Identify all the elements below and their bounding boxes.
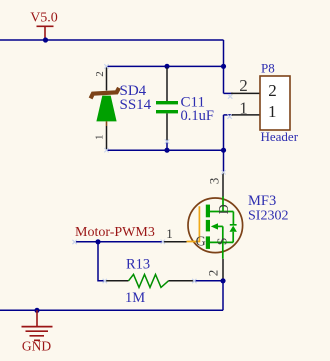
- svg-text:1: 1: [166, 226, 173, 241]
- capacitor C11 pin 2 line: [166, 113, 168, 140]
- svg-text:2: 2: [268, 81, 277, 100]
- pin number 2 (SD4): [94, 71, 106, 77]
- wire stub to header pin 1: [224, 114, 234, 116]
- capacitor C11 pin 1 line: [166, 68, 168, 102]
- power symbol V5.0: [30, 11, 58, 40]
- wire C11 bottom stub: [166, 140, 168, 150]
- resistor R13 zigzag: [129, 274, 169, 287]
- MF3 drain connection: [210, 197, 233, 212]
- net label Motor-PWM3: [75, 225, 155, 240]
- designator P8: [261, 61, 275, 76]
- transistor MF3 body circle: [188, 198, 243, 253]
- pin number 1 (SD4): [94, 135, 106, 141]
- header P8 display number 1: [268, 102, 277, 121]
- pin number 1 (MF3): [166, 226, 173, 241]
- MF3 pin name S: [216, 238, 231, 246]
- wire top rail V5.0: [0, 39, 224, 41]
- wire down to R13: [98, 242, 105, 281]
- value 1M: [125, 290, 145, 306]
- wire stub to header pin 2: [224, 92, 234, 94]
- svg-text:D: D: [217, 204, 232, 214]
- svg-text:1: 1: [268, 102, 277, 121]
- ground symbol: [22, 310, 53, 353]
- junction Motor-PWM3: [95, 239, 100, 244]
- svg-text:0.1uF: 0.1uF: [181, 108, 214, 124]
- svg-text:V5.0: V5.0: [30, 11, 58, 26]
- wire box bottom: [107, 149, 224, 151]
- junction C11 top: [164, 64, 169, 69]
- pin hotspot marks: [72, 64, 232, 283]
- MF3 gate line: [187, 206, 200, 241]
- capacitor C11 plates: [156, 101, 178, 113]
- svg-text:G: G: [196, 234, 206, 249]
- header P8 pin 1 line: [231, 114, 260, 116]
- wire R13 to source node: [194, 280, 223, 282]
- wire down to MOSFET drain: [223, 150, 225, 172]
- svg-text:1: 1: [94, 135, 106, 141]
- svg-text:GND: GND: [22, 339, 51, 354]
- svg-text:S: S: [216, 238, 231, 246]
- junction box bottom right: [221, 148, 226, 153]
- junction at V5.0 rail: [43, 37, 48, 42]
- header P8 pin 2 line: [231, 92, 260, 94]
- resistor R13 pin 1 line: [105, 280, 129, 282]
- junction source node: [220, 278, 225, 283]
- svg-text:SI2302: SI2302: [248, 209, 288, 224]
- MF3 pin name G: [196, 234, 206, 249]
- wire right column upper: [223, 40, 225, 93]
- junction C11 bottom: [164, 148, 169, 153]
- MF3 bulk electrode bar: [206, 220, 210, 232]
- svg-text:Motor-PWM3: Motor-PWM3: [75, 225, 155, 240]
- svg-text:1: 1: [239, 98, 248, 117]
- pin number 2 (MF3): [206, 270, 221, 277]
- label C11: [181, 95, 205, 111]
- MF3 body diode triangle: [230, 226, 237, 232]
- junction top right: [221, 64, 226, 69]
- svg-text:Header: Header: [261, 129, 299, 144]
- transistor MF3 gate pin line: [163, 241, 187, 243]
- svg-text:1M: 1M: [125, 290, 145, 306]
- wire box top (node V5 to diode/cap): [107, 65, 224, 67]
- designator R13: [126, 257, 150, 273]
- label Header: [261, 129, 299, 144]
- diode SD4 pin 1 line: [106, 126, 108, 150]
- MF3 body diode anode line: [232, 232, 234, 243]
- svg-text:2: 2: [239, 76, 248, 95]
- designator MF3: [248, 193, 276, 209]
- label SD4: [120, 83, 147, 99]
- header P8 display number 2: [268, 81, 277, 100]
- MF3 body diode cathode line: [230, 212, 237, 225]
- svg-text:SS14: SS14: [120, 97, 152, 113]
- MF3 pin name D: [217, 204, 232, 214]
- wire Motor-PWM3: [76, 241, 163, 243]
- diode SD4 anode stub: [106, 121, 108, 126]
- label 0.1uF: [181, 108, 214, 124]
- wire header pin1 down to box bottom: [223, 115, 225, 150]
- MF3 source electrode bar: [206, 236, 210, 249]
- label SS14: [120, 97, 152, 113]
- resistor R13 pin 2 line: [169, 280, 195, 282]
- svg-text:R13: R13: [126, 257, 150, 273]
- svg-text:2: 2: [94, 71, 106, 77]
- junction GND: [34, 308, 39, 313]
- svg-text:P8: P8: [261, 61, 275, 76]
- svg-text:3: 3: [207, 178, 222, 185]
- wire bottom rail GND: [0, 309, 223, 311]
- diode SD4 cathode bar: [91, 88, 119, 99]
- pin number 1 (P8): [239, 98, 248, 117]
- diode SD4 pin 2 line: [106, 66, 108, 90]
- transistor MF3 pin 3 line: [222, 173, 224, 198]
- MF3 drain electrode bar: [206, 205, 210, 218]
- pin number 2 (P8): [239, 76, 248, 95]
- transistor MF3 pin 2 line: [222, 259, 224, 281]
- pin number 3 (MF3): [207, 178, 222, 185]
- header P8 body: [260, 76, 290, 130]
- svg-text:MF3: MF3: [248, 193, 276, 209]
- label SI2302: [248, 209, 288, 224]
- MF3 source connection: [210, 226, 233, 258]
- MF3 bulk arrow: [211, 223, 223, 229]
- svg-text:2: 2: [206, 270, 221, 277]
- wire source node down: [222, 281, 224, 311]
- diode SD4 body: [96, 96, 116, 122]
